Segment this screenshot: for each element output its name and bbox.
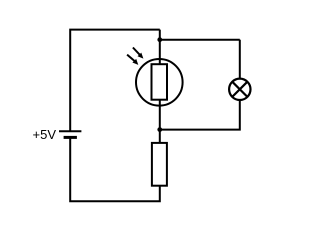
wire: lamp top drop	[239, 40, 241, 80]
lamp L1 cross stroke 2	[232, 82, 247, 97]
lamp L1 circle	[229, 79, 250, 100]
svg-text:+5V: +5V	[33, 127, 57, 142]
lamp L1 cross stroke 1	[232, 82, 247, 97]
wire: resistor R1 bottom to bottom rail to battery -	[70, 138, 160, 202]
junction node A dot	[157, 37, 162, 42]
resistor R1 body box	[152, 143, 167, 186]
LDR circle envelope	[136, 59, 183, 106]
battery B1 short negative plate	[64, 136, 77, 139]
wire: branch node A to lamp top	[160, 39, 240, 41]
wire: left rail top + top rail (battery + to node A corner)	[70, 30, 160, 132]
battery B1 long positive plate	[59, 130, 81, 132]
LDR light arrow 2	[127, 55, 138, 65]
LDR light arrow 1	[133, 48, 144, 59]
junction node B dot	[157, 127, 162, 132]
LDR resistor body box	[152, 64, 168, 100]
wire: middle vertical drop through LDR to resistor R1 top	[159, 30, 161, 143]
wire: lamp bottom to node B	[160, 99, 240, 130]
